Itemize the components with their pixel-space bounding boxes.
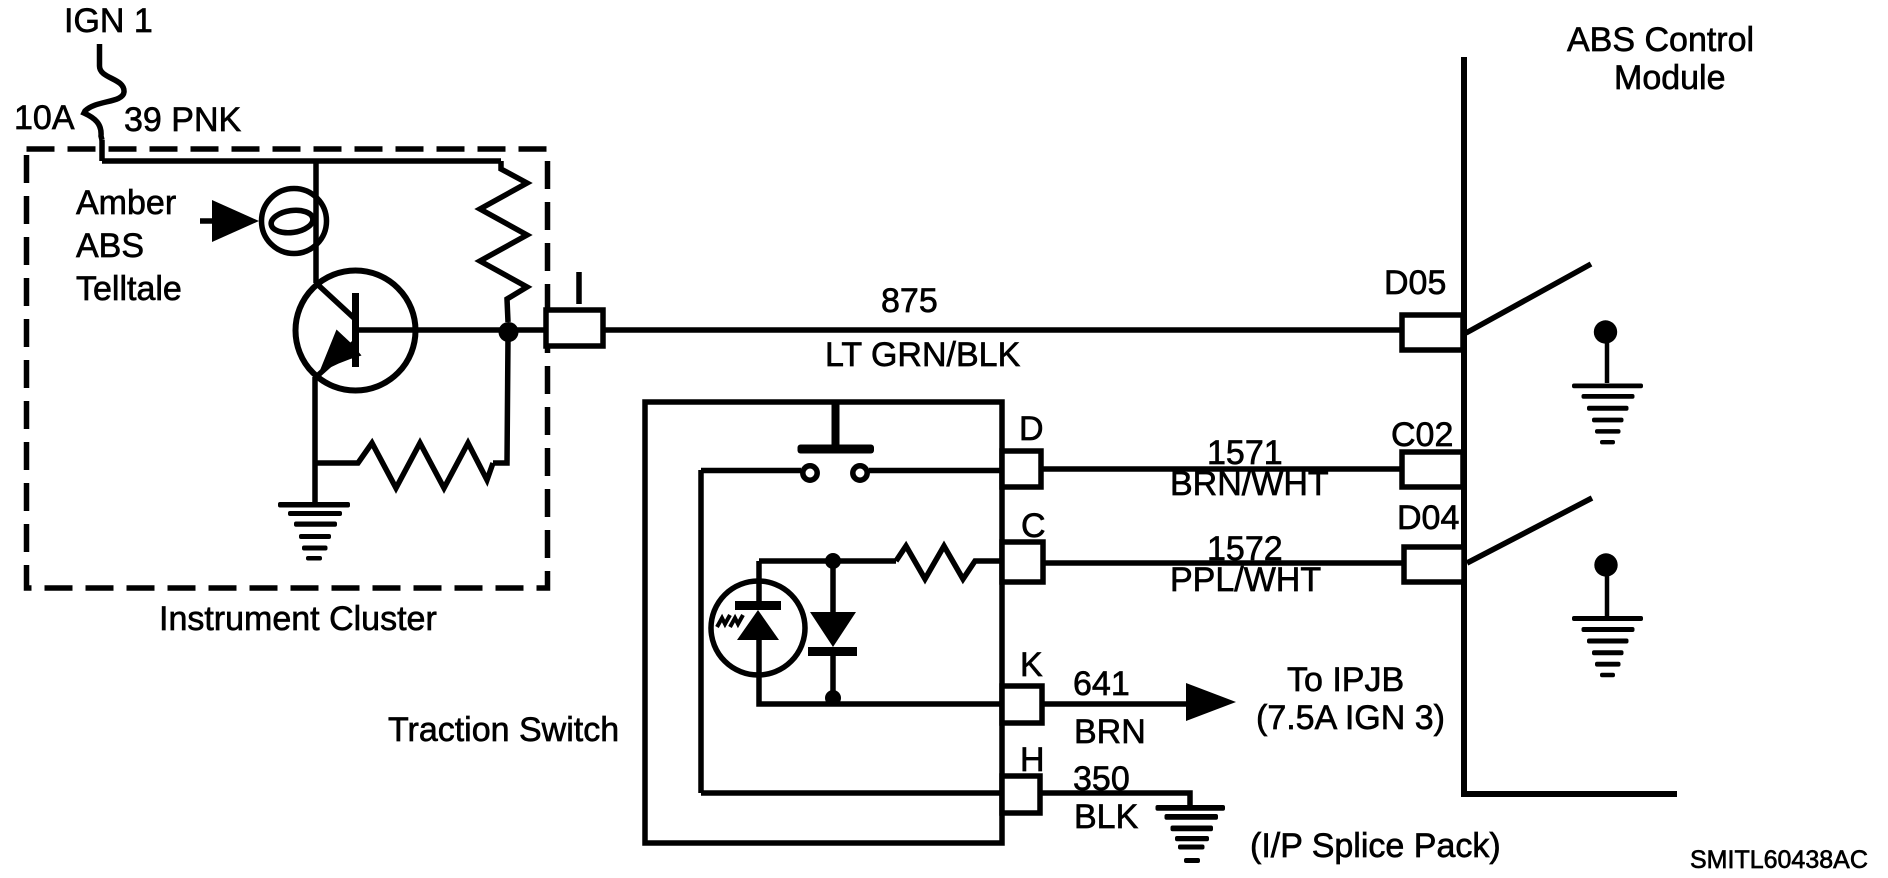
switch S2 inside ABS module	[1467, 498, 1592, 563]
wire from bus through lamp to transistor collector	[313, 161, 319, 283]
svg-text:D04: D04	[1397, 499, 1459, 537]
svg-text:Module: Module	[1614, 59, 1726, 97]
connector C02 box	[1402, 452, 1463, 487]
node junction dot	[499, 322, 519, 342]
node dot switch S1	[1594, 320, 1617, 343]
wire transistor emitter to ground	[312, 377, 318, 503]
instrument cluster dashed box	[27, 149, 548, 588]
ground ABS module upper	[1572, 384, 1643, 445]
svg-text:Instrument Cluster: Instrument Cluster	[159, 600, 437, 638]
traction switch outer box	[645, 402, 1002, 843]
wire inner left vertical	[698, 470, 704, 793]
svg-text:SMITL60438AC: SMITL60438AC	[1690, 846, 1868, 874]
push button SW actuator	[832, 402, 840, 445]
svg-text:LT GRN/BLK: LT GRN/BLK	[825, 336, 1021, 374]
connector I box	[546, 310, 603, 346]
svg-text:K: K	[1020, 646, 1043, 684]
node dot diode to bottom wire	[825, 690, 841, 706]
ground instrument cluster	[278, 502, 350, 561]
connector C box	[1002, 542, 1043, 582]
diode D1	[830, 561, 836, 612]
fuse F1 10A	[84, 66, 124, 140]
svg-text:39 PNK: 39 PNK	[124, 101, 241, 139]
wire junction to resistor R3	[833, 558, 896, 564]
ABS control module boundary line	[1464, 57, 1677, 794]
svg-text:875: 875	[881, 282, 938, 320]
resistor R3	[896, 546, 1002, 579]
switch S1 inside ABS module	[1466, 264, 1591, 333]
transistor Q1	[296, 271, 416, 391]
wire inner left to contact	[701, 468, 801, 474]
svg-text:ABS Control: ABS Control	[1567, 21, 1754, 59]
wire 875 LT GRN/BLK	[601, 327, 1402, 333]
svg-text:350: 350	[1073, 760, 1130, 798]
wire LED to bottom	[759, 675, 1002, 704]
switch contact left	[803, 466, 817, 480]
wire from junction to LED	[759, 558, 833, 564]
switch contact right	[853, 466, 867, 480]
wire bus across top of cluster	[102, 158, 501, 164]
connector D05 box	[1402, 315, 1463, 350]
base lead wire to connector I	[355, 327, 545, 333]
wire 350 BLK	[1040, 793, 1190, 806]
arrow pointing at telltale lamp	[200, 218, 215, 224]
svg-text:ABS: ABS	[76, 227, 144, 265]
LED light squiggles	[717, 615, 730, 627]
svg-text:641: 641	[1073, 665, 1130, 703]
svg-text:(7.5A IGN 3): (7.5A IGN 3)	[1256, 699, 1445, 737]
svg-text:BRN: BRN	[1074, 713, 1146, 751]
svg-text:Traction Switch: Traction Switch	[388, 711, 619, 749]
ground IP splice pack	[1156, 805, 1226, 863]
wire from junction down to resistor R2	[493, 338, 508, 463]
ground ABS module lower	[1572, 616, 1643, 677]
LED lamp circle	[756, 561, 762, 581]
pin label I	[576, 272, 582, 304]
wire 1571 BRN/WHT	[1041, 466, 1402, 472]
lamp L1 amber ABS telltale	[262, 189, 327, 254]
connector K box	[1002, 686, 1042, 723]
svg-text:To IPJB: To IPJB	[1287, 661, 1404, 699]
svg-text:PPL/WHT: PPL/WHT	[1170, 561, 1321, 599]
arrow to IPJB	[1186, 683, 1236, 721]
node junction dot LED/diode	[825, 553, 841, 569]
connector D04 box	[1404, 547, 1464, 582]
wire from fuse into instrument cluster	[99, 140, 105, 161]
svg-text:Amber: Amber	[76, 184, 176, 222]
svg-text:(I/P Splice Pack): (I/P Splice Pack)	[1250, 827, 1501, 865]
svg-text:IGN 1: IGN 1	[64, 2, 153, 40]
wire dot to ground	[1605, 576, 1610, 616]
svg-text:Telltale: Telltale	[76, 270, 182, 308]
LED symbol	[735, 601, 781, 610]
connector D box	[1002, 451, 1041, 487]
resistor R1 pull-up	[480, 161, 527, 322]
wire dot to ground	[1605, 343, 1610, 383]
wire 1572 PPL/WHT	[1043, 560, 1404, 566]
wire 641 BRN	[1042, 701, 1186, 707]
node dot switch S2	[1594, 553, 1617, 576]
svg-text:BLK: BLK	[1074, 798, 1139, 836]
wire from IGN 1 to fuse	[97, 44, 103, 66]
label Amber ABS Telltale	[76, 184, 182, 308]
resistor R2	[316, 443, 493, 488]
wire contact to connector D	[869, 468, 1002, 474]
svg-text:D05: D05	[1384, 264, 1446, 302]
connector H box	[1002, 776, 1040, 813]
svg-text:C02: C02	[1391, 416, 1453, 454]
svg-text:10A: 10A	[14, 99, 75, 137]
svg-text:BRN/WHT: BRN/WHT	[1170, 465, 1329, 503]
wire inner bottom to connector H	[701, 790, 1002, 796]
svg-text:D: D	[1019, 410, 1044, 448]
